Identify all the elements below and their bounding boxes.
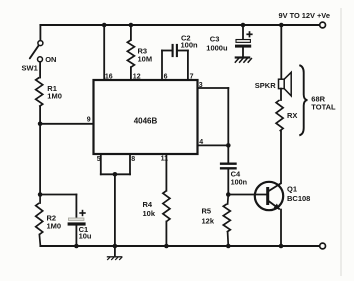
wire base to Q1 (228, 194, 266, 196)
svg-text:7: 7 (190, 74, 194, 81)
junction emitter/bottom rail (279, 244, 284, 249)
svg-text:5: 5 (97, 156, 101, 163)
terminal bottom (320, 243, 326, 249)
wire rail to SW1 (39, 25, 41, 41)
switch SW1 (38, 41, 43, 46)
svg-text:100n: 100n (231, 178, 247, 187)
junction R5/bottom rail (226, 244, 231, 249)
junction ground/bottom rail (113, 244, 118, 249)
resistor R2 (36, 203, 43, 235)
wire R5 to bottom rail (227, 232, 230, 246)
wire C4 to base node (227, 169, 229, 194)
wire C1 to bottom rail (75, 226, 77, 246)
svg-text:9V TO 12V +Ve: 9V TO 12V +Ve (279, 11, 330, 20)
junction pin4/C4 (226, 143, 231, 148)
wire left vertical to R2 node (39, 124, 41, 195)
wire SW1 to R1 (39, 62, 41, 78)
speaker SPKR (279, 79, 285, 88)
wire pins 5-8 join (101, 173, 130, 175)
wire node to R2 (39, 195, 41, 204)
junction R4/bottom rail (164, 244, 169, 249)
svg-text:10u: 10u (79, 232, 92, 241)
svg-text:4046B: 4046B (134, 117, 158, 126)
svg-text:100n: 100n (181, 41, 199, 50)
ground (bottom) (114, 246, 116, 256)
svg-text:TOTAL: TOTAL (311, 103, 336, 112)
junction R1/pin9/left rail (38, 122, 43, 127)
wire pin3 loop down (227, 88, 229, 145)
wire R1 to node (39, 107, 41, 124)
svg-text:10k: 10k (143, 209, 156, 218)
svg-text:10M: 10M (138, 54, 153, 63)
svg-text:RX: RX (287, 111, 297, 120)
svg-text:12k: 12k (202, 217, 215, 226)
transistor Q1 (255, 182, 283, 210)
wire SPKR to RX (280, 89, 282, 100)
resistor R4 (163, 191, 170, 222)
svg-text:SPKR: SPKR (255, 81, 276, 90)
junction C4/R5/base (226, 192, 231, 197)
svg-text:R4: R4 (143, 200, 153, 209)
resistor R5 (223, 204, 230, 232)
wire C2 right lead (178, 50, 188, 52)
capacitor C1 (electrolytic) (69, 218, 84, 220)
wire pin 5 down (100, 154, 102, 174)
resistor RX (276, 100, 283, 131)
wire R3 to pin 12 (130, 67, 132, 80)
junction SPKR/rail (279, 23, 284, 28)
svg-text:4: 4 (199, 139, 203, 146)
svg-text:1M0: 1M0 (47, 222, 62, 231)
svg-text:8: 8 (131, 156, 135, 163)
wire node to C1 (40, 194, 76, 196)
wire to bottom rail/ground (114, 174, 116, 246)
svg-text:C3: C3 (210, 34, 220, 43)
scan artifact line (decorative) (340, 8, 342, 276)
svg-text:16: 16 (105, 74, 113, 81)
wire pin 11 to R4 (165, 154, 167, 191)
resistor R1 (36, 78, 43, 107)
junction R3/rail (129, 23, 134, 28)
wire C2 left lead (162, 50, 172, 52)
wire pin 8 down (129, 154, 131, 174)
wire to C1 top plate (75, 195, 77, 218)
resistor R3 (127, 40, 134, 67)
wire rail to R3 (130, 25, 132, 40)
svg-text:12: 12 (133, 74, 141, 81)
svg-text:11: 11 (161, 156, 169, 163)
wire R4 to bottom rail (165, 222, 167, 247)
wire pin 4 (198, 144, 229, 146)
svg-text:1M0: 1M0 (47, 92, 62, 101)
wire rail to C3 (242, 25, 244, 40)
svg-text:3: 3 (199, 82, 203, 89)
wire node to pin 9 (40, 123, 93, 125)
wire rail to SPKR (280, 25, 282, 79)
wire pin 16 to rail (103, 25, 105, 80)
wire Q1 emitter to bottom rail (280, 210, 282, 246)
wire pin4 node to C4 (227, 145, 229, 162)
wire pin 7 to C2 (187, 51, 189, 81)
ground (C3) (235, 56, 251, 58)
svg-text:BC108: BC108 (287, 194, 310, 203)
junction pins 5-8 (113, 172, 118, 177)
svg-text:1000u: 1000u (206, 44, 228, 53)
svg-text:Q1: Q1 (287, 184, 297, 193)
junction C1/bottom rail (74, 244, 79, 249)
wire R2 to bottom rail (39, 235, 40, 246)
wire Q1 collector to RX (280, 131, 282, 183)
wire top supply rail (40, 24, 319, 26)
junction pin16/rail (102, 23, 107, 28)
svg-text:R5: R5 (202, 207, 212, 216)
wire bottom rail (40, 245, 319, 247)
brace 68R TOTAL (299, 65, 307, 135)
wire pin 3 (198, 87, 229, 89)
svg-text:ON: ON (45, 55, 56, 64)
wire node to R5 (227, 195, 230, 205)
IC U1 4046B (94, 80, 198, 154)
terminal +Ve top (320, 22, 326, 28)
svg-text:6: 6 (164, 74, 168, 81)
svg-text:9: 9 (87, 117, 91, 124)
wire pin 6 to C2 (161, 51, 163, 81)
wire C3 to ground (242, 48, 244, 57)
svg-text:SW1: SW1 (22, 64, 38, 73)
junction C3/rail (241, 23, 246, 28)
junction R2/C1 (38, 192, 43, 197)
